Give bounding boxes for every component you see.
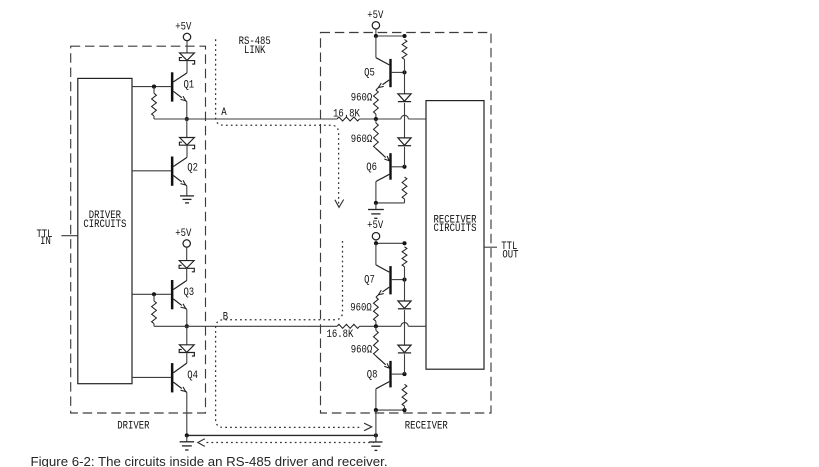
wire receiver mid node <box>376 242 405 244</box>
label node A <box>221 107 227 119</box>
label RECEIVER CIRCUITS <box>434 214 477 235</box>
wire Q7 base node to diode D7 <box>404 280 406 301</box>
junction node A receiver <box>374 117 378 121</box>
wire Q2 emitter to ground <box>186 186 188 196</box>
driver dashed enclosure <box>71 46 206 413</box>
wire B to zener D4 <box>186 326 188 345</box>
wire Q4 base <box>132 376 171 378</box>
junction receiver upper ground node <box>374 201 378 205</box>
svg-text:Q1: Q1 <box>183 79 194 91</box>
junction Q6 base node <box>402 165 406 169</box>
ground (receiver upper) <box>368 203 384 218</box>
transistor Q3 <box>171 280 187 309</box>
svg-text:960Ω: 960Ω <box>351 345 373 357</box>
wire receiver upper bottom rail <box>376 202 405 204</box>
label Q6 <box>366 162 377 174</box>
wire TTL IN <box>61 235 77 237</box>
junction Q1 base node <box>152 85 156 89</box>
svg-text:+5V: +5V <box>175 21 192 33</box>
resistor (top node to Q5 base) <box>402 40 407 60</box>
label RS-485 LINK <box>239 36 271 57</box>
svg-text:960Ω: 960Ω <box>351 134 373 146</box>
junction mid node right <box>402 241 406 245</box>
resistor 960 (Q7 emitter) <box>374 295 379 327</box>
wire D5 to D6 through A hop <box>404 103 406 138</box>
label Q8 <box>367 369 378 381</box>
junction lower rail right <box>402 408 406 412</box>
label 960 ohm (Q6) <box>351 134 373 146</box>
transistor Q2 <box>171 157 187 186</box>
junction mid node left <box>374 241 378 245</box>
label TTL IN <box>36 229 52 248</box>
receiver dashed enclosure <box>321 33 492 414</box>
wire Q5 collector <box>376 36 389 65</box>
caption Figure 6-2 <box>31 454 388 467</box>
resistor (Q8 base to rail) <box>402 384 407 410</box>
junction node A driver <box>185 117 189 121</box>
wire lower rail to ground bus <box>375 410 377 435</box>
wire Q7 base <box>392 279 405 281</box>
label 960 ohm (Q7) <box>350 302 372 314</box>
svg-text:16.8K: 16.8K <box>333 109 360 121</box>
wire Q3 base <box>132 293 171 295</box>
zener D1 (Q1 collector) <box>179 53 194 64</box>
wire line A <box>154 115 426 119</box>
label DRIVER <box>117 421 150 433</box>
label TTL OUT <box>501 241 519 261</box>
zener D4 (Q4 collector) <box>179 345 194 356</box>
wire ground bus <box>187 434 376 436</box>
wire Q2 base <box>132 170 171 172</box>
ground (driver bottom) <box>180 435 195 450</box>
svg-text:+5V: +5V <box>175 228 192 240</box>
diode D5 <box>398 94 411 102</box>
transistor Q6 <box>376 149 392 182</box>
wire Q5 base node to diode D5 <box>404 72 406 93</box>
resistor (Q1 base-A bias) <box>152 87 157 119</box>
label Q3 <box>183 287 194 299</box>
resistor 16.8K (line B) <box>337 324 360 328</box>
svg-text:CIRCUITS: CIRCUITS <box>83 219 126 231</box>
label Q1 <box>183 79 194 91</box>
wire D4 to Q4 collector <box>186 353 188 364</box>
wire resistor to Q5 base node <box>404 60 406 73</box>
svg-text:IN: IN <box>40 236 51 248</box>
wire receiver top node <box>376 35 405 37</box>
transistor Q5 <box>379 59 392 88</box>
diode D7 <box>398 301 411 309</box>
junction ground bus receiver end <box>374 433 378 437</box>
svg-text:Q3: Q3 <box>183 287 194 299</box>
wire Q1 base <box>132 86 171 88</box>
wire Q7 collector <box>376 243 389 272</box>
wire TTL OUT <box>484 246 497 248</box>
svg-text:Q4: Q4 <box>187 370 198 382</box>
wire D6 to Q6 base node <box>404 147 406 167</box>
label Q4 <box>187 370 198 382</box>
junction Q7 base node <box>402 278 406 282</box>
wire Q3 emitter to node B <box>186 309 188 326</box>
svg-text:16.8K: 16.8K <box>327 329 354 341</box>
svg-text:Q2: Q2 <box>187 162 198 174</box>
transistor Q1 <box>171 72 187 101</box>
label Q7 <box>364 275 375 287</box>
receiver circuits block <box>426 101 484 370</box>
svg-text:Q5: Q5 <box>364 67 375 79</box>
wire Q4 emitter to ground bus <box>186 392 188 435</box>
wire D2 to Q2 collector <box>186 145 188 157</box>
resistor 960 (Q8 emitter) <box>374 326 379 356</box>
power +5V (driver mid) <box>175 228 192 260</box>
junction top node left <box>374 34 378 38</box>
junction node B driver <box>185 324 189 328</box>
junction lower rail left <box>374 408 378 412</box>
junction Q8 base node <box>402 372 406 376</box>
power +5V (receiver top) <box>367 10 384 36</box>
wire Q5 base <box>392 71 405 73</box>
junction Q5 base node <box>402 70 406 74</box>
diode D6 <box>398 138 411 146</box>
resistor (mid node to Q7 base) <box>402 247 407 267</box>
svg-text:RECEIVER: RECEIVER <box>405 421 448 433</box>
label RECEIVER <box>405 421 448 433</box>
svg-text:OUT: OUT <box>502 249 519 261</box>
driver circuits block <box>78 78 132 383</box>
svg-text:960Ω: 960Ω <box>350 302 372 314</box>
svg-text:CIRCUITS: CIRCUITS <box>434 223 477 235</box>
signal flow path B (receiver to driver to ground) <box>216 241 372 431</box>
ground (receiver bottom) <box>369 435 382 450</box>
wire D3 to Q3 collector <box>186 268 188 280</box>
svg-text:LINK: LINK <box>244 45 266 57</box>
transistor Q7 <box>379 266 392 295</box>
transistor Q4 <box>171 363 187 392</box>
wire Q6 collector to ground <box>375 182 377 203</box>
resistor (Q3 base-B bias) <box>152 294 157 326</box>
junction node B receiver <box>374 324 378 328</box>
resistor 16.8K (line A) <box>337 117 360 121</box>
svg-text:+5V: +5V <box>367 10 384 22</box>
wire A to zener D2 <box>186 119 188 138</box>
resistor (Q6 base to rail) <box>402 177 407 203</box>
svg-text:A: A <box>221 107 227 119</box>
signal flow path ground return <box>198 439 374 447</box>
junction top node right <box>402 34 406 38</box>
label 16.8K (line A) <box>333 109 360 121</box>
label Q2 <box>187 162 198 174</box>
zener D2 (Q2 collector) <box>179 138 194 149</box>
label 16.8K (line B) <box>327 329 354 341</box>
wire Q8 collector to bottom rail <box>375 389 377 410</box>
svg-text:Q6: Q6 <box>366 162 377 174</box>
zener D3 (Q3 collector) <box>179 261 194 272</box>
svg-text:+5V: +5V <box>367 220 384 232</box>
wire line B <box>154 323 426 327</box>
resistor 960 (Q6 emitter) <box>374 119 379 149</box>
wire Q1 emitter to node A <box>186 102 188 119</box>
svg-text:Q7: Q7 <box>364 275 375 287</box>
label DRIVER CIRCUITS <box>83 210 126 231</box>
svg-text:960Ω: 960Ω <box>351 93 373 105</box>
svg-text:Figure 6-2: The circuits insid: Figure 6-2: The circuits inside an RS-48… <box>31 454 388 467</box>
diode D8 <box>398 345 411 353</box>
power +5V (driver top) <box>175 21 192 53</box>
power +5V (receiver mid) <box>367 220 384 243</box>
junction Q3 base node <box>152 292 156 296</box>
wire receiver lower bottom rail <box>376 409 405 411</box>
label Q5 <box>364 67 375 79</box>
wire Q8 base <box>392 373 405 375</box>
resistor 960 (Q5 emitter) <box>374 88 379 120</box>
transistor Q8 <box>376 356 392 389</box>
wire resistor to Q7 base node <box>404 267 406 280</box>
svg-text:DRIVER: DRIVER <box>117 421 150 433</box>
label 960 ohm (Q5) <box>351 93 373 105</box>
wire D8 to Q8 base node <box>404 354 406 374</box>
wire Q6 base <box>392 166 405 168</box>
wire D7 to D8 through B hop <box>404 310 406 345</box>
signal flow path A (driver to receiver) <box>216 39 344 207</box>
ground (driver upper) <box>180 196 194 203</box>
label node B <box>223 311 229 323</box>
wire D1 to Q1 collector <box>186 61 188 73</box>
svg-text:Q8: Q8 <box>367 369 378 381</box>
junction ground bus driver end <box>185 433 189 437</box>
label 960 ohm (Q8) <box>351 345 373 357</box>
svg-text:B: B <box>223 311 229 323</box>
